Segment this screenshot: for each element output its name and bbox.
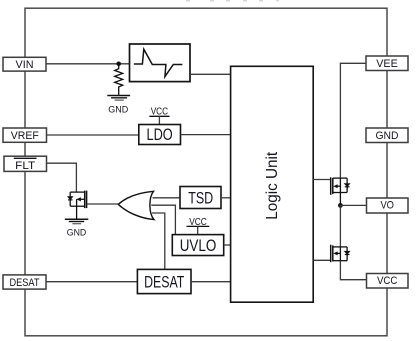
svg-text:GND: GND xyxy=(376,130,399,142)
wire FLT to pulldown FET drain xyxy=(46,163,76,192)
transistor Q2 (high-side output NMOS) xyxy=(331,177,347,205)
pin VIN xyxy=(3,57,46,71)
filter waveform glyph xyxy=(134,49,183,76)
wire LDO to Logic Unit xyxy=(181,134,231,136)
pin VO xyxy=(367,198,409,213)
wire OR output to Q1 gate xyxy=(87,203,119,205)
node VO junction dot xyxy=(338,203,343,208)
svg-text:DESAT: DESAT xyxy=(144,273,184,291)
pin VREF xyxy=(3,128,47,142)
pin FLT (active low) xyxy=(4,156,47,172)
svg-text:UVLO: UVLO xyxy=(180,237,217,255)
pin VCC xyxy=(367,274,409,289)
input filter box U1 xyxy=(130,44,191,82)
pin GND xyxy=(366,128,408,143)
wire TSD to Logic Unit xyxy=(221,197,231,199)
Q1 body diode D1 xyxy=(68,197,73,200)
resistor R (pulldown on VIN) xyxy=(115,64,123,95)
svg-text:TSD: TSD xyxy=(188,189,213,207)
pin VEE xyxy=(366,56,408,71)
svg-text:VIN: VIN xyxy=(16,59,34,71)
wire VIN to filter xyxy=(46,63,130,65)
node junction dot xyxy=(116,62,121,67)
svg-text:LDO: LDO xyxy=(147,126,173,144)
wire DESAT block to Logic Unit xyxy=(191,281,231,283)
cropped text remnant at top xyxy=(186,0,279,1)
wire OR input from TSD xyxy=(153,197,181,199)
Q3 body arrow xyxy=(333,251,337,255)
svg-text:VO: VO xyxy=(380,200,394,212)
svg-text:VCC: VCC xyxy=(377,275,398,287)
wire node to VO pin xyxy=(340,204,366,206)
svg-text:GND: GND xyxy=(67,228,87,239)
wire VREF to LDO xyxy=(47,134,139,136)
wire Q3 source to VCC pin xyxy=(340,261,366,280)
pin DESAT xyxy=(3,275,46,289)
svg-text:VEE: VEE xyxy=(376,58,398,70)
Q1 body arrow xyxy=(76,197,81,201)
svg-text:Logic Unit: Logic Unit xyxy=(264,151,281,220)
wire filter to Logic Unit xyxy=(190,73,231,75)
LDO block xyxy=(139,125,181,145)
UVLO block xyxy=(172,235,223,256)
wire OR input from DESAT xyxy=(152,213,165,269)
VCC rail label for UVLO xyxy=(187,217,210,235)
svg-text:VREF: VREF xyxy=(11,130,39,142)
VCC rail label for LDO xyxy=(149,107,169,125)
wire node to Q3 drain xyxy=(339,205,341,247)
Q3 body diode D3 xyxy=(345,251,350,256)
ground GND2 xyxy=(65,219,89,223)
ground GND1 xyxy=(107,96,130,101)
svg-text:GND: GND xyxy=(108,105,128,116)
transistor Q3 (low-side output NMOS) xyxy=(331,245,347,263)
wire VEE to Q2 drain xyxy=(340,63,366,178)
TSD block xyxy=(180,187,221,209)
wire UVLO to Logic Unit xyxy=(224,244,231,246)
Q2 body diode D2 xyxy=(345,184,350,189)
OR gate G1 (mirrored, output left) xyxy=(118,191,154,219)
transistor Q1 (FLT pulldown NMOS) xyxy=(70,191,86,219)
wire Logic Unit to Q3 gate xyxy=(313,259,331,261)
wire DESAT pin to DESAT block xyxy=(46,281,137,283)
Q2 body arrow xyxy=(333,184,337,188)
wire OR input from UVLO xyxy=(151,205,175,234)
Logic Unit block xyxy=(231,66,314,302)
svg-text:FLT: FLT xyxy=(15,160,35,172)
wire Logic Unit to Q2 gate xyxy=(313,179,331,181)
DESAT block xyxy=(137,269,191,293)
svg-text:DESAT: DESAT xyxy=(10,277,40,289)
